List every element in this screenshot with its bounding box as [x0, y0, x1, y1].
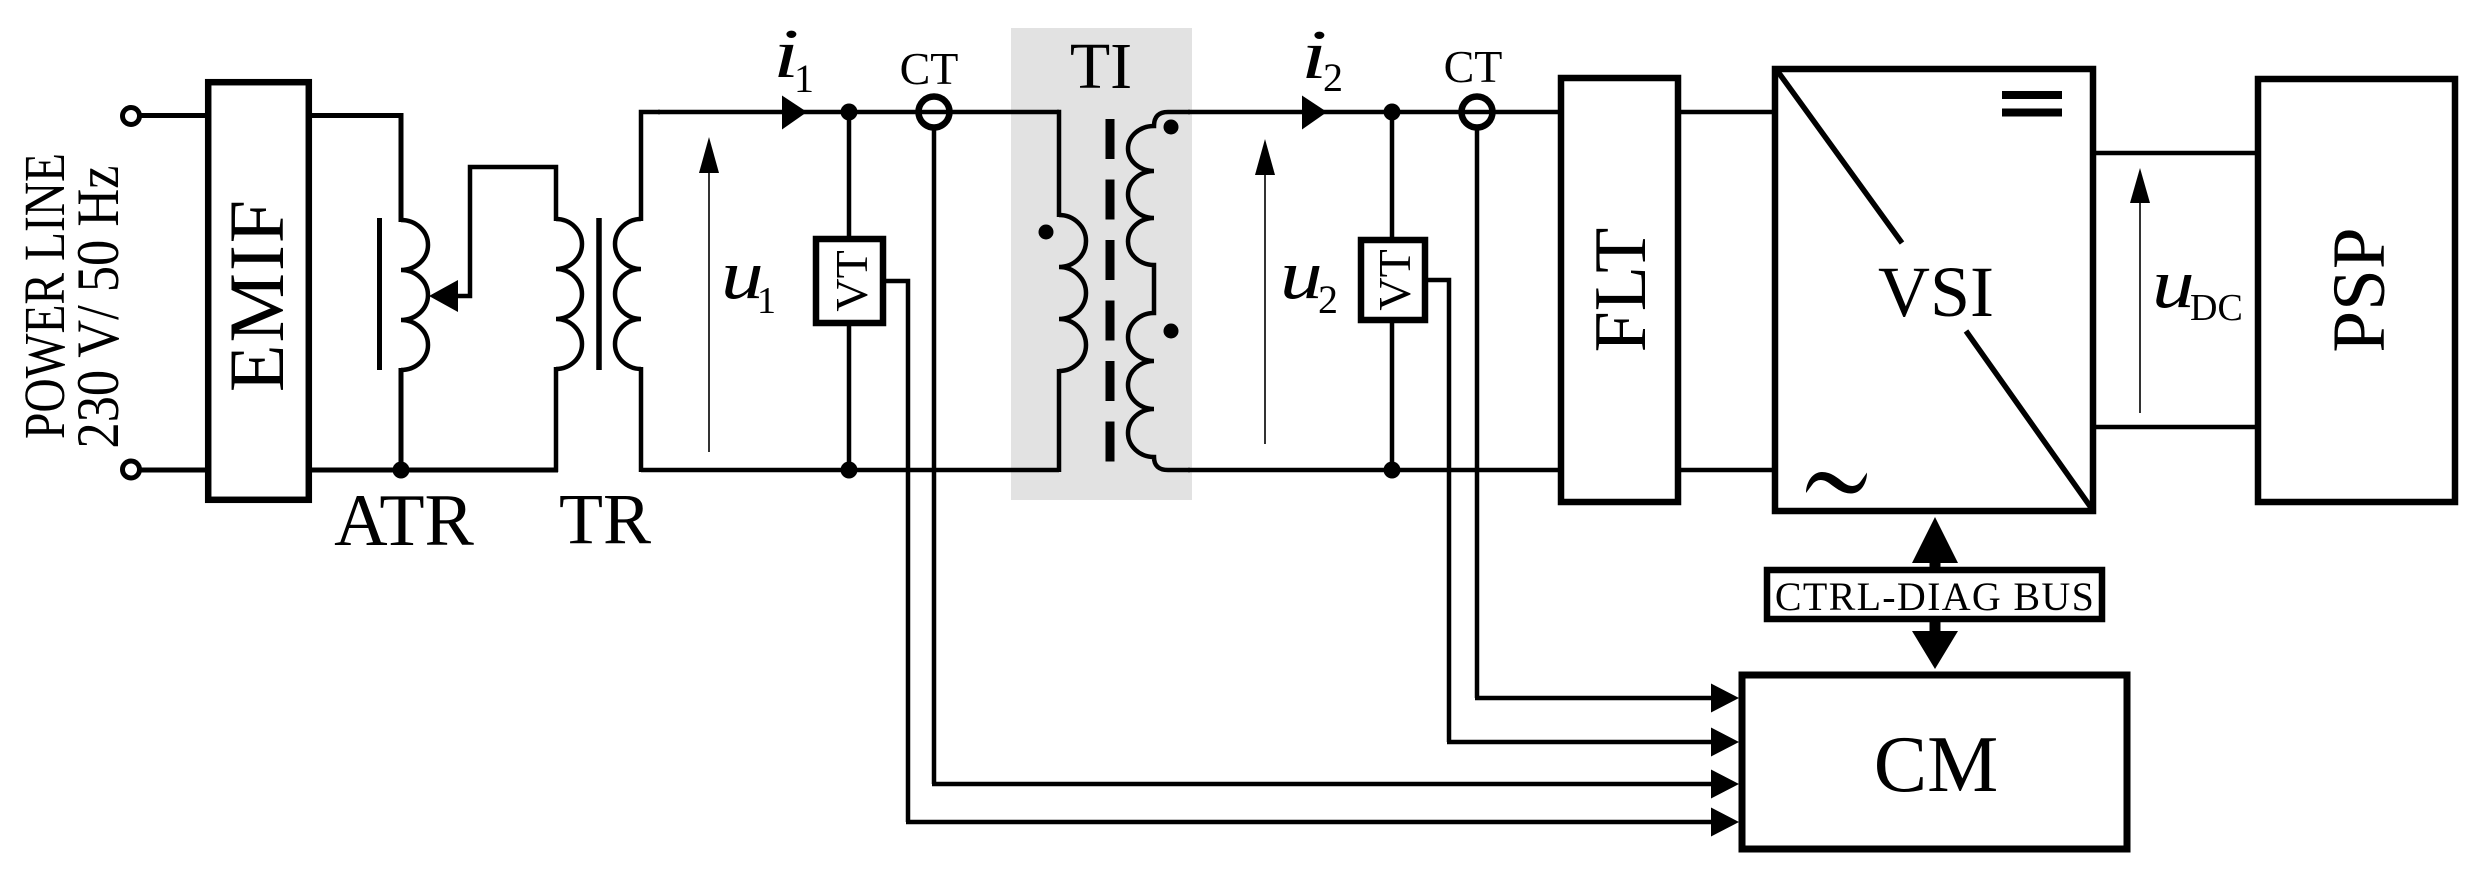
wire: upper terminal to EMIF [137, 113, 208, 118]
voltage transducer VT1 box [816, 239, 883, 323]
svg-text:1: 1 [794, 56, 814, 101]
inverter VSI block [1775, 69, 2093, 511]
wire: VT1 to CM [906, 820, 1714, 825]
bus arrow CTRL-CM shaft [1930, 620, 1941, 632]
VSI DC symbol bar 1 [2002, 91, 2062, 99]
wire: TR secondary top riser [641, 112, 660, 221]
bus arrow CTRL-CM head [1912, 631, 1958, 669]
wire: TR primary bottom [554, 367, 559, 472]
wire: junction to VT2 [1390, 112, 1395, 240]
voltage arrow uDC head [2130, 168, 2150, 203]
svg-text:ATR: ATR [334, 480, 474, 562]
CM input arrowhead 3 [1711, 770, 1739, 799]
svg-text:VT: VT [826, 250, 877, 311]
svg-text:2: 2 [1323, 55, 1343, 100]
VSI AC tilde symbol [1806, 472, 1867, 494]
transformer TR primary coil [556, 219, 582, 369]
svg-text:VSI: VSI [1878, 252, 1994, 332]
svg-text:CM: CM [1874, 721, 1999, 809]
svg-text:2: 2 [1318, 277, 1338, 322]
VSI diagonal lower segment [1966, 331, 2092, 509]
TI primary polarity dot [1039, 225, 1054, 240]
wire: CT1 output [932, 126, 937, 784]
CM input arrowhead 1 [1711, 684, 1739, 713]
wire: VT2 to bottom rail [1390, 320, 1395, 470]
wire: lower terminal to EMIF [137, 468, 208, 473]
svg-text:TR: TR [559, 479, 651, 559]
terminal upper [123, 108, 140, 125]
wire: VSI to PSP lower [2094, 425, 2258, 430]
wire: TI primary top riser [1057, 112, 1059, 217]
wire: ATR bottom to bottom rail [399, 368, 404, 470]
TI secondary polarity dot lower [1164, 324, 1179, 339]
TI highlight background [1011, 28, 1192, 500]
junction bottom VT1 [841, 462, 858, 479]
current arrow i2 [1302, 96, 1327, 130]
wire: VSI to PSP upper [2094, 151, 2258, 156]
load PSP block [2258, 79, 2455, 502]
transformer TR secondary coil [615, 219, 641, 369]
current transformer CT2 [1462, 97, 1493, 128]
wire: junction to VT1 [847, 112, 852, 239]
svg-text:FLT: FLT [1580, 228, 1662, 353]
wire: bottom rail TI secondary to FLT [1188, 468, 1561, 473]
wire: TI primary bottom riser [1057, 369, 1062, 472]
EMIF block [208, 82, 309, 500]
svg-text:TI: TI [1070, 30, 1132, 103]
ATR tap wire to TR primary [452, 167, 556, 296]
ATR core bar [377, 218, 382, 370]
junction top VT1 [841, 104, 858, 121]
wire: top rail TI secondary to FLT [1188, 110, 1561, 115]
wire: VT1 output [883, 281, 908, 822]
wire: EMIF to ATR top [311, 116, 401, 223]
wire: bottom rail TR secondary to TI primary [641, 468, 1059, 473]
current transformer CT1 [919, 97, 950, 128]
CTRL-DIAG BUS box [1767, 570, 2102, 619]
isolation transformer TI primary coil [1059, 215, 1086, 371]
wire: FLT to VSI bottom [1678, 468, 1775, 473]
junction top VT2 [1384, 104, 1401, 121]
voltage arrow uDC [2139, 198, 2141, 413]
junction ATR bottom [393, 462, 410, 479]
svg-text:VT: VT [1369, 249, 1420, 310]
TI secondary polarity dot upper [1164, 120, 1179, 135]
filter FLT block [1561, 78, 1678, 502]
svg-text:EMIF: EMIF [213, 198, 300, 392]
wire: CT1 to CM [932, 782, 1714, 787]
TI core dashed bar [1106, 119, 1115, 464]
svg-text:1: 1 [757, 280, 776, 322]
TR core bar [596, 218, 602, 370]
wire: EMIF to TR bottom [311, 468, 558, 473]
CM input arrowhead 2 [1711, 728, 1739, 757]
control module CM block [1742, 675, 2127, 849]
VSI DC symbol bar 2 [2002, 109, 2062, 117]
svg-text:PSP: PSP [2318, 227, 2401, 352]
svg-text:CTRL-DIAG BUS: CTRL-DIAG BUS [1775, 574, 2095, 619]
svg-text:230 V/ 50 Hz: 230 V/ 50 Hz [65, 166, 131, 449]
wire: top rail TR secondary to TI primary [658, 110, 1059, 115]
svg-text:CT: CT [1444, 41, 1503, 92]
isolation transformer TI secondary winding [1128, 112, 1190, 470]
svg-text:u: u [1280, 235, 1323, 313]
svg-text:DC: DC [2190, 287, 2243, 329]
terminal lower [123, 461, 140, 478]
wire: VT2 output [1425, 280, 1449, 742]
voltage arrow u1 head [699, 137, 719, 173]
bus arrow VSI-CTRL head [1912, 517, 1958, 563]
VSI diagonal upper segment [1776, 69, 1902, 243]
CM input arrowhead 4 [1711, 808, 1739, 837]
wire: TR secondary bottom riser [639, 367, 644, 472]
wire: VT2 to CM [1447, 740, 1714, 745]
voltage arrow u1 [708, 168, 710, 452]
junction bottom VT2 [1384, 462, 1401, 479]
wire: FLT to VSI top [1678, 110, 1775, 115]
voltage transducer VT2 box [1361, 240, 1425, 320]
voltage arrow u2 head [1255, 139, 1275, 175]
svg-text:CT: CT [900, 43, 959, 94]
svg-text:u: u [2152, 244, 2195, 322]
autotransformer ATR coil [401, 220, 428, 370]
wire: CT2 to CM [1475, 696, 1714, 701]
current arrow i1 [782, 96, 807, 130]
ATR tap arrowhead [429, 280, 458, 312]
voltage arrow u2 [1264, 170, 1266, 444]
wire: VT1 to bottom rail [847, 323, 852, 470]
bus arrow VSI-CTRL shaft [1930, 558, 1941, 569]
wire: CT2 output [1475, 126, 1480, 698]
